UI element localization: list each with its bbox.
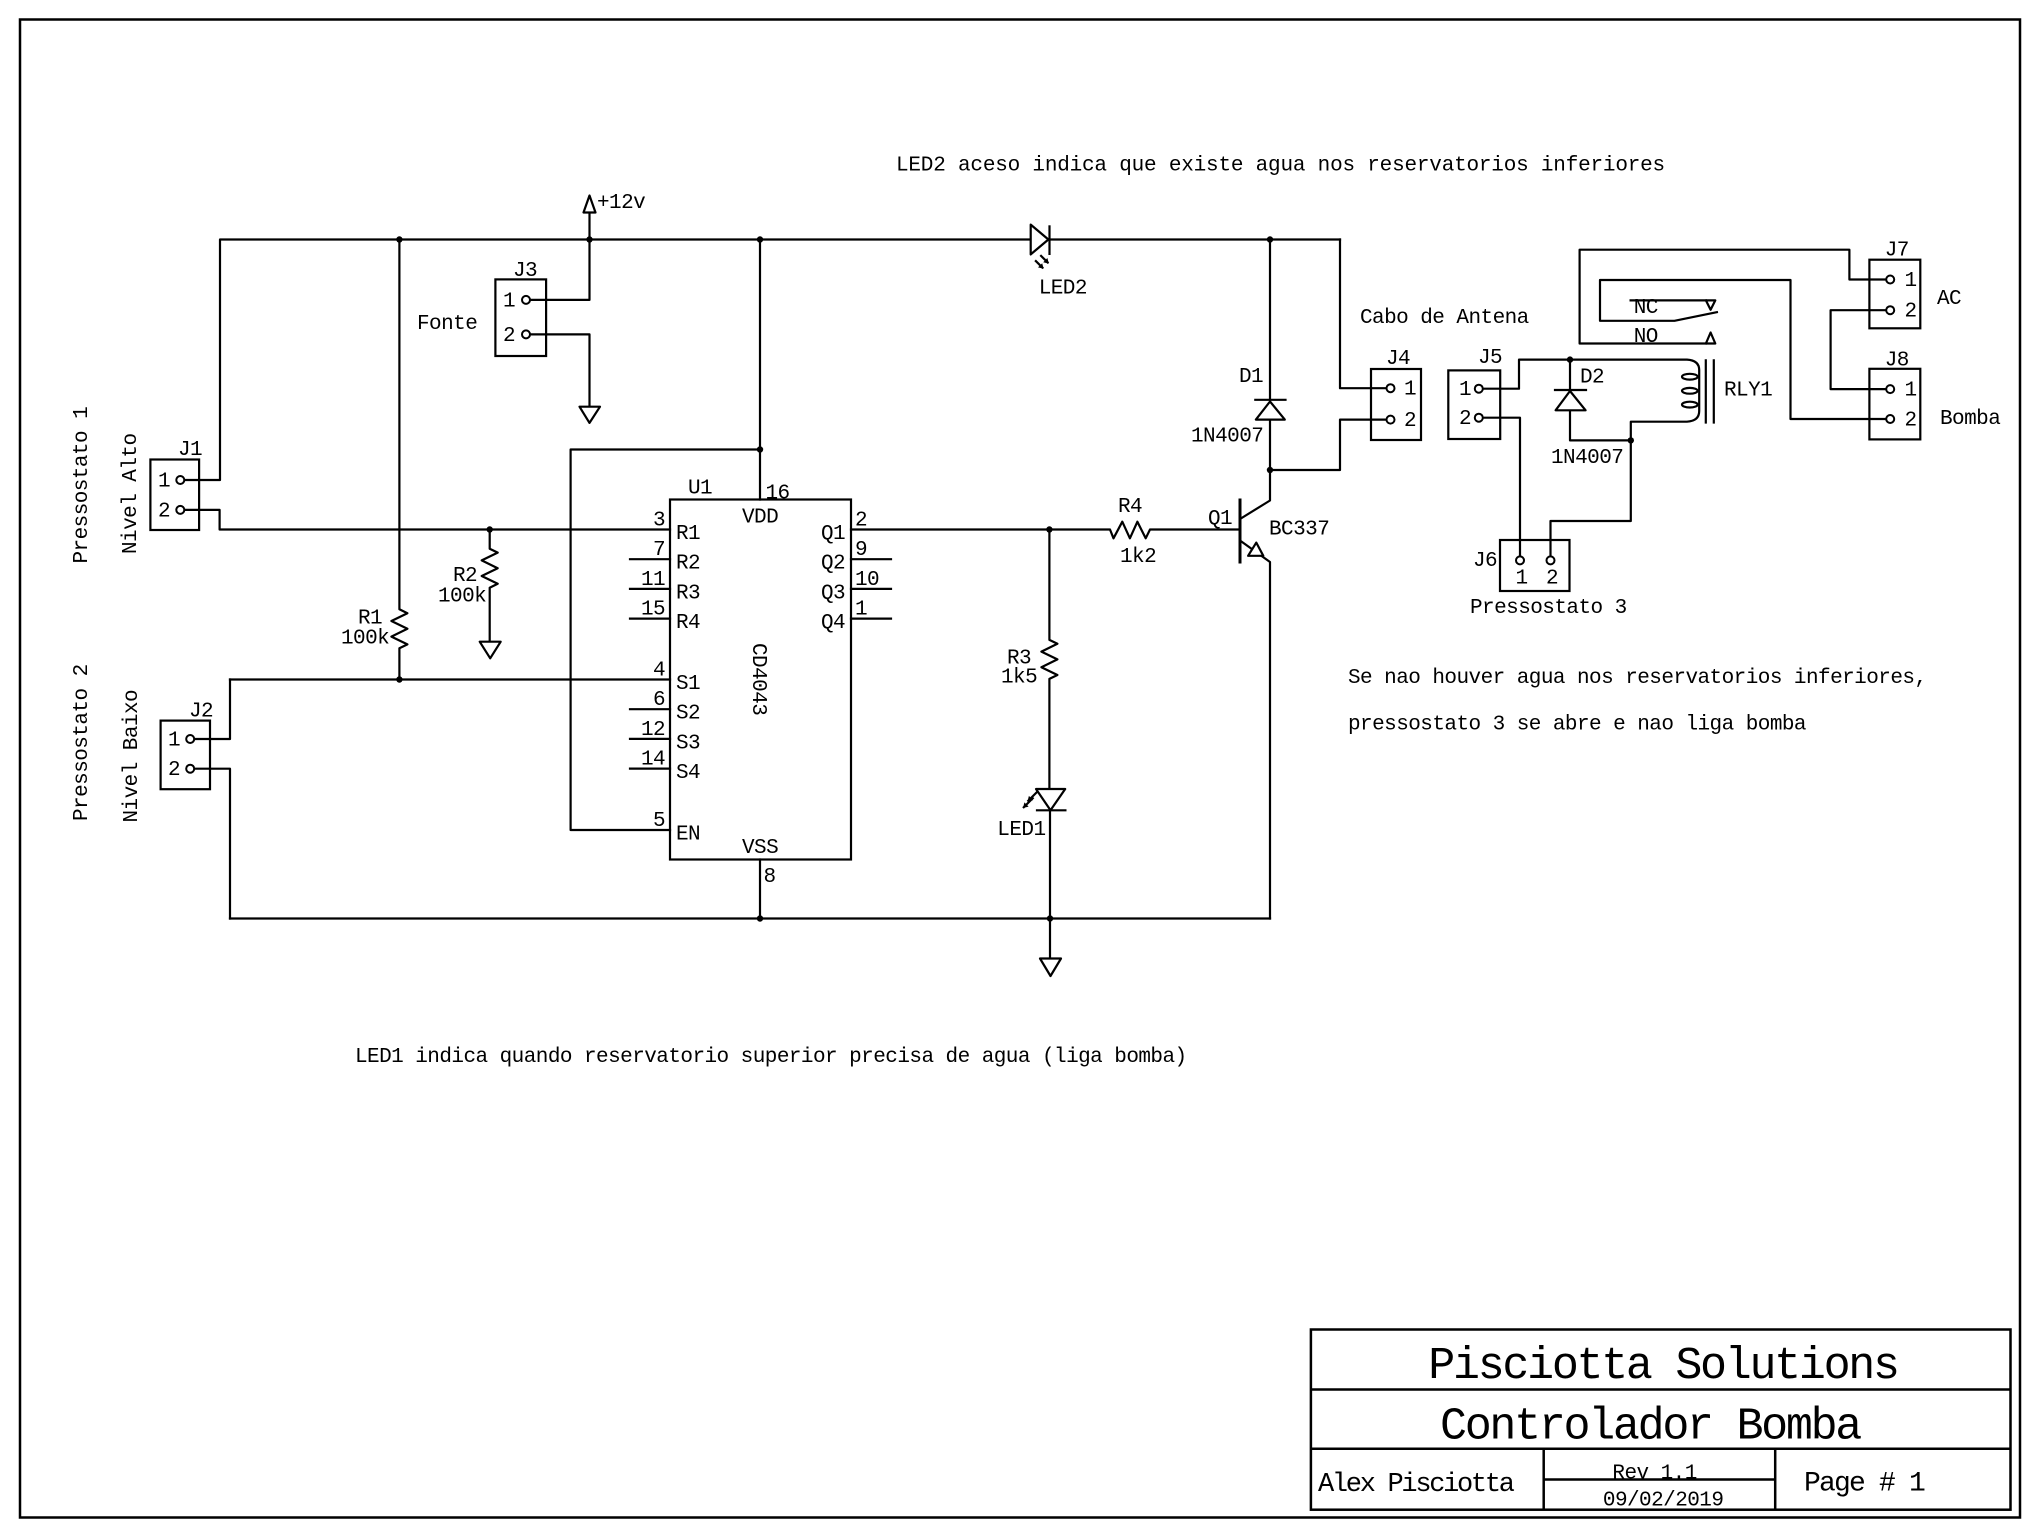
svg-text:3: 3 — [653, 510, 665, 533]
svg-text:D2: D2 — [1580, 367, 1604, 390]
svg-text:Rev 1.1: Rev 1.1 — [1612, 1463, 1696, 1486]
svg-text:7: 7 — [653, 539, 665, 562]
svg-text:Q4: Q4 — [821, 612, 845, 635]
svg-text:1: 1 — [1905, 270, 1917, 293]
svg-text:LED2: LED2 — [1039, 278, 1087, 301]
svg-text:NO: NO — [1634, 326, 1658, 349]
svg-text:R2: R2 — [676, 553, 700, 576]
svg-text:1k5: 1k5 — [1001, 667, 1037, 690]
svg-text:AC: AC — [1937, 288, 1961, 311]
svg-text:1N4007: 1N4007 — [1191, 426, 1263, 449]
svg-text:J7: J7 — [1885, 240, 1909, 263]
svg-text:Pisciotta Solutions: Pisciotta Solutions — [1428, 1341, 1897, 1392]
svg-text:2: 2 — [503, 325, 515, 348]
svg-text:J8: J8 — [1885, 350, 1909, 373]
svg-text:Cabo de Antena: Cabo de Antena — [1360, 307, 1529, 330]
svg-text:100k: 100k — [341, 628, 389, 651]
svg-text:RLY1: RLY1 — [1724, 380, 1772, 403]
svg-text:Nivel Baixo: Nivel Baixo — [121, 690, 144, 823]
svg-text:J3: J3 — [513, 260, 537, 283]
svg-text:1: 1 — [855, 599, 867, 622]
svg-text:Q3: Q3 — [821, 582, 845, 605]
svg-text:S4: S4 — [676, 762, 700, 785]
svg-text:10: 10 — [855, 569, 879, 592]
svg-text:1: 1 — [1516, 568, 1528, 591]
svg-text:1: 1 — [168, 730, 180, 753]
svg-text:1N4007: 1N4007 — [1551, 447, 1623, 470]
svg-text:Fonte: Fonte — [417, 313, 477, 336]
svg-text:Q1: Q1 — [1208, 508, 1232, 531]
svg-text:J5: J5 — [1478, 347, 1502, 370]
svg-text:2: 2 — [1546, 568, 1558, 591]
svg-text:100k: 100k — [438, 586, 486, 609]
svg-text:2: 2 — [855, 510, 867, 533]
svg-text:Se nao houver agua nos reserva: Se nao houver agua nos reservatorios inf… — [1348, 667, 1927, 690]
svg-text:11: 11 — [641, 569, 665, 592]
svg-text:Controlador Bomba: Controlador Bomba — [1440, 1402, 1861, 1453]
svg-text:CD4043: CD4043 — [746, 643, 769, 715]
svg-text:LED1 indica quando reservatori: LED1 indica quando reservatorio superior… — [355, 1046, 1187, 1069]
svg-text:J4: J4 — [1386, 348, 1410, 371]
svg-text:09/02/2019: 09/02/2019 — [1603, 1490, 1724, 1513]
svg-text:J2: J2 — [189, 701, 213, 724]
svg-text:Q2: Q2 — [821, 553, 845, 576]
svg-text:BC337: BC337 — [1269, 518, 1329, 541]
svg-text:1: 1 — [1459, 379, 1471, 402]
svg-text:pressostato 3 se abre e nao li: pressostato 3 se abre e nao liga bomba — [1348, 714, 1806, 737]
svg-text:2: 2 — [1905, 410, 1917, 433]
svg-text:R1: R1 — [676, 523, 700, 546]
svg-text:U1: U1 — [688, 478, 712, 501]
svg-text:5: 5 — [653, 810, 665, 833]
svg-text:14: 14 — [641, 749, 665, 772]
svg-text:2: 2 — [158, 500, 170, 523]
svg-text:S3: S3 — [676, 732, 700, 755]
svg-text:VSS: VSS — [742, 837, 778, 860]
svg-text:J1: J1 — [178, 439, 202, 462]
svg-text:16: 16 — [766, 483, 790, 506]
svg-text:LED2 aceso indica que existe a: LED2 aceso indica que existe agua nos re… — [896, 155, 1665, 178]
svg-text:15: 15 — [641, 599, 665, 622]
svg-text:1: 1 — [158, 471, 170, 494]
svg-text:9: 9 — [855, 539, 867, 562]
svg-text:R4: R4 — [676, 612, 700, 635]
svg-text:+12v: +12v — [597, 192, 645, 215]
svg-text:R3: R3 — [676, 582, 700, 605]
svg-text:Alex Pisciotta: Alex Pisciotta — [1318, 1470, 1515, 1500]
svg-text:1k2: 1k2 — [1120, 546, 1156, 569]
svg-text:Nivel Alto: Nivel Alto — [120, 433, 143, 554]
svg-text:2: 2 — [1404, 410, 1416, 433]
svg-text:1: 1 — [1905, 380, 1917, 403]
svg-text:2: 2 — [168, 759, 180, 782]
svg-text:J6: J6 — [1473, 550, 1497, 573]
svg-text:12: 12 — [641, 719, 665, 742]
svg-text:1: 1 — [1404, 379, 1416, 402]
svg-text:EN: EN — [676, 824, 700, 847]
svg-text:Pressostato 2: Pressostato 2 — [71, 664, 94, 821]
svg-text:1: 1 — [503, 290, 515, 313]
svg-text:S2: S2 — [676, 703, 700, 726]
svg-text:Q1: Q1 — [821, 523, 845, 546]
svg-text:8: 8 — [764, 866, 776, 889]
svg-text:Pressostato 1: Pressostato 1 — [71, 407, 94, 564]
svg-text:Pressostato 3: Pressostato 3 — [1470, 597, 1627, 620]
svg-text:6: 6 — [653, 689, 665, 712]
svg-text:VDD: VDD — [742, 507, 778, 530]
svg-text:NC: NC — [1634, 297, 1658, 320]
svg-text:D1: D1 — [1239, 366, 1263, 389]
svg-text:Page # 1: Page # 1 — [1804, 1469, 1925, 1500]
svg-text:LED1: LED1 — [997, 819, 1045, 842]
svg-text:Bomba: Bomba — [1940, 408, 2000, 431]
svg-text:2: 2 — [1905, 301, 1917, 324]
svg-text:S1: S1 — [676, 673, 700, 696]
svg-text:R4: R4 — [1118, 496, 1142, 519]
svg-text:2: 2 — [1459, 408, 1471, 431]
svg-text:4: 4 — [653, 660, 665, 683]
